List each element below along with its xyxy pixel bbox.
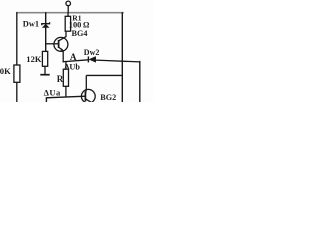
wire: node A horizontal run: [63, 60, 140, 63]
svg-text:ΔUa: ΔUa: [44, 87, 61, 97]
wire: right branch vertical: [121, 12, 123, 102]
wire: base tap to BG4: [46, 43, 59, 45]
wire: R bottom lead: [65, 86, 67, 97]
wire: BG2 collector to right rail: [86, 74, 122, 76]
resistor 12K body: [42, 51, 47, 66]
svg-text:R: R: [57, 74, 64, 84]
wire: zener branch vertical: [45, 12, 47, 51]
terminal bar below 12K: [40, 74, 49, 76]
resistor 10K body: [14, 65, 20, 82]
wire: left branch vertical: [16, 12, 18, 102]
svg-text:Dw1: Dw1: [23, 20, 39, 29]
terminal: supply input circle: [66, 1, 71, 13]
wire: right drop from corner to bottom: [139, 61, 141, 102]
transistor BG2: [81, 75, 95, 103]
zener diode Dw1 (cathode up): [42, 22, 50, 27]
wire: 12K bottom lead: [44, 66, 46, 74]
svg-text:10K: 10K: [0, 66, 11, 76]
svg-text:12K: 12K: [26, 54, 42, 64]
svg-text:BG4: BG4: [72, 29, 88, 38]
svg-text:BG2: BG2: [100, 93, 116, 102]
resistor R1 body: [65, 16, 70, 31]
transistor BG4: [54, 31, 68, 62]
resistor R body: [63, 69, 68, 86]
wire: top supply rail (gray): [16, 12, 124, 14]
svg-text:Dw2: Dw2: [84, 48, 100, 57]
svg-text:A: A: [70, 52, 77, 62]
resistor R1 top lead: [67, 13, 69, 17]
resistor R top lead: [65, 62, 67, 69]
wire: bottom base run to BG2: [46, 96, 85, 102]
diode Dw2 (pointing left): [88, 56, 95, 62]
